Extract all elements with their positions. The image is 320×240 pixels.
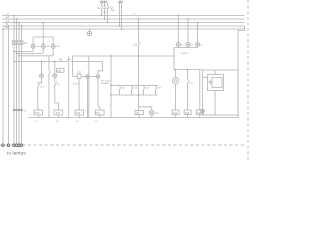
bus N [2, 25, 245, 27]
wire [17, 53, 44, 55]
svg-text:1.4: 1.4 [186, 121, 190, 123]
node feeder PE [2, 28, 4, 30]
svg-text:-S0: -S0 [58, 57, 63, 61]
breaker Q1 link [102, 7, 109, 9]
node N [119, 25, 121, 27]
svg-text:1 2 3: 1 2 3 [101, 2, 105, 4]
terminal lamps 4 [15, 144, 17, 146]
svg-text:-X2: -X2 [23, 110, 27, 112]
wire branch drop 3 [88, 56, 90, 118]
svg-text:-F1: -F1 [23, 41, 27, 45]
wire [100, 3, 102, 7]
node control [13, 61, 15, 63]
contact S4 [143, 85, 145, 95]
lamp H11 [196, 42, 200, 46]
svg-text:K13: K13 [95, 112, 100, 115]
lamp H1 [31, 37, 35, 52]
breaker Q1 pole 3 [107, 7, 109, 11]
lamp H9 [176, 42, 180, 46]
wire rail upper [111, 84, 158, 86]
contact K5 [48, 71, 50, 76]
node feeder L1 [13, 15, 15, 17]
svg-text:3x230V: 3x230V [181, 53, 189, 55]
node PE [121, 28, 123, 30]
svg-text:-P1: -P1 [180, 81, 184, 83]
switch S1 [138, 42, 141, 46]
svg-text:1·2: 1·2 [35, 121, 39, 123]
wire [55, 87, 59, 111]
coil K2 [77, 74, 81, 78]
wire [187, 19, 189, 48]
wire L3 feeder [18, 23, 20, 148]
lamp H10 [186, 42, 190, 46]
breaker Q1 mechanism [98, 7, 100, 8]
terminal X2:2 [16, 109, 18, 111]
fuse block F1 [12, 41, 23, 45]
node H10 [187, 18, 189, 20]
svg-text:-K1: -K1 [57, 84, 61, 86]
wire S1 drop [138, 19, 140, 43]
wire lamp rail [33, 36, 53, 38]
wire [78, 78, 80, 110]
wire [203, 76, 209, 78]
wire [41, 62, 43, 74]
terminal X2:4 [21, 109, 23, 111]
contact S3 [131, 85, 133, 95]
node H6 [41, 61, 43, 63]
wire [54, 78, 56, 82]
svg-text:1.6: 1.6 [198, 121, 202, 123]
wire N feeder [8, 26, 10, 147]
svg-text:K1T: K1T [57, 70, 62, 73]
terminal strip X1 (4,5) [119, 1, 122, 3]
node L3-Q1 [107, 22, 109, 24]
node lamp1 [13, 51, 15, 53]
coil K14 [172, 110, 179, 115]
svg-text:L3: L3 [200, 45, 203, 47]
power supply enclosure U1 [203, 70, 239, 115]
wire top right [174, 48, 203, 70]
wire [214, 91, 216, 116]
coil K15 [184, 110, 191, 115]
lamp H5 [96, 75, 100, 79]
node S1 top [138, 18, 140, 20]
coil K16 [196, 110, 203, 115]
wire [37, 88, 40, 110]
wire branch drop 2 [68, 56, 70, 118]
svg-text:5·6: 5·6 [76, 121, 80, 123]
svg-text:-G1: -G1 [229, 77, 233, 79]
svg-text:7·8: 7·8 [95, 121, 99, 123]
lamp H6 [40, 74, 44, 78]
svg-text:K10: K10 [35, 112, 40, 115]
terminal X2:1 [13, 109, 15, 111]
svg-text:25A ~: 25A ~ [110, 9, 116, 12]
wire [37, 115, 39, 118]
wire [73, 75, 78, 77]
node rail3 [110, 94, 112, 96]
wire [177, 16, 179, 48]
lamp H7 [53, 74, 57, 78]
svg-text:A1: A1 [55, 107, 58, 110]
node meter [175, 69, 177, 71]
wire N2 feeder [21, 26, 23, 147]
svg-text:-K2: -K2 [77, 72, 81, 74]
svg-text:L1: L1 [6, 12, 9, 16]
wire [78, 115, 80, 118]
svg-text:K15: K15 [185, 112, 190, 115]
wire [107, 10, 109, 22]
contact K4 [187, 70, 189, 110]
wire [98, 62, 102, 75]
wire [87, 78, 89, 84]
terminal lamps 1 [2, 144, 4, 146]
earth symbol [87, 29, 92, 36]
node rail2 [110, 84, 112, 86]
terminal X2:3 [18, 109, 20, 111]
svg-text:-K4: -K4 [190, 83, 194, 85]
wire [110, 56, 112, 118]
wire L2 feeder [16, 19, 18, 147]
wire [214, 70, 216, 75]
lamp H3 [51, 37, 55, 56]
wire control feed [14, 61, 66, 63]
svg-text:-H3: -H3 [56, 46, 60, 48]
node L2-Q1 [104, 18, 106, 20]
coil K12 [75, 110, 84, 115]
wire [48, 75, 50, 118]
svg-text:K11: K11 [56, 112, 61, 115]
hour meter P2 [172, 70, 179, 110]
wire [38, 78, 42, 85]
dashed boundary right [247, 0, 249, 160]
contact S2 [119, 85, 121, 95]
neutral rail bottom [28, 117, 238, 119]
node rail5 [110, 55, 112, 57]
wire rail lower [111, 94, 158, 96]
svg-text:K16: K16 [197, 112, 202, 115]
svg-text:230VAC: 230VAC [101, 82, 109, 85]
wire [199, 70, 201, 110]
svg-text:K14: K14 [173, 112, 178, 115]
wire [104, 3, 106, 7]
wire [81, 76, 86, 78]
bus L3 [2, 22, 245, 24]
node K4 [187, 69, 189, 71]
svg-text:2 4 6: 2 4 6 [102, 11, 107, 13]
svg-text:24VDC: 24VDC [73, 84, 80, 86]
svg-text:1.2: 1.2 [174, 121, 178, 123]
wire [174, 47, 198, 49]
wire [73, 56, 175, 62]
wire [57, 115, 59, 118]
wire [98, 78, 100, 110]
svg-text:-H2: -H2 [46, 46, 50, 48]
svg-text:L1: L1 [181, 45, 184, 47]
node lamp3 [18, 55, 20, 57]
node feeder N2 [21, 25, 23, 27]
wire [87, 85, 89, 118]
wire [107, 3, 109, 7]
node feeder L2 [16, 18, 18, 20]
node rail4 [138, 94, 140, 96]
node H9 [177, 15, 179, 17]
junction dots [2, 15, 198, 96]
wire [199, 115, 201, 118]
earth terminal [201, 109, 205, 113]
wire [19, 55, 53, 57]
breaker Q1 pole 2 [104, 7, 106, 11]
wire [175, 115, 177, 118]
coil K10 [34, 110, 43, 115]
svg-text:-H8: -H8 [155, 113, 159, 115]
svg-text:K12: K12 [76, 112, 81, 115]
svg-text:-S4: -S4 [146, 88, 150, 90]
svg-text:PE: PE [5, 25, 9, 29]
wire lamp feed [42, 23, 44, 38]
terminal lamps 6 [20, 144, 22, 146]
lamp H8 [139, 107, 155, 118]
node lamp feed [42, 22, 44, 24]
svg-text:L2: L2 [191, 45, 194, 47]
wire [121, 3, 123, 29]
contact S5 [155, 85, 157, 95]
node feeder N [8, 25, 10, 27]
node H7 [54, 61, 56, 63]
switch S0 [66, 59, 71, 62]
dashed boundary bottom [0, 144, 246, 146]
wire [104, 10, 106, 19]
svg-text:-S1: -S1 [133, 42, 138, 46]
svg-text:-H1: -H1 [36, 46, 40, 48]
svg-text:to lamps: to lamps [7, 150, 26, 155]
wire [138, 46, 140, 111]
breaker Q1 pole 1 [101, 7, 103, 11]
terminal lamps 2 [7, 144, 9, 146]
svg-text:-S2: -S2 [122, 88, 126, 90]
wire [54, 62, 56, 74]
wire [100, 10, 102, 15]
wire L1 feeder [13, 16, 15, 148]
bus PE [2, 28, 245, 30]
terminal lamps 3 [13, 144, 15, 146]
wire [72, 62, 74, 77]
coil K13 [96, 110, 105, 115]
terminal lamps 5 [18, 144, 20, 146]
svg-text:3·4: 3·4 [56, 121, 60, 123]
contact K3 [37, 84, 39, 89]
power supply G1 [208, 75, 224, 91]
contact K1 [54, 82, 56, 87]
svg-text:-S5: -S5 [158, 88, 162, 90]
lamp H4 [86, 75, 90, 79]
svg-text:-Q1: -Q1 [110, 5, 115, 9]
wire [187, 115, 189, 118]
svg-text:-S3: -S3 [134, 88, 138, 90]
lamp H2 [41, 37, 45, 54]
wire [99, 115, 101, 118]
svg-text:4 5: 4 5 [119, 2, 122, 4]
wire [238, 26, 245, 118]
node H11 [197, 22, 199, 24]
svg-text:-K3: -K3 [40, 87, 44, 89]
wire [89, 76, 96, 78]
svg-text:A1: A1 [76, 107, 79, 110]
bus L1 [2, 15, 245, 17]
terminal strip X1 (1,2,3) [100, 1, 106, 3]
bus L2 [2, 18, 245, 20]
wire branch drop 1 [48, 56, 50, 71]
wire [197, 23, 199, 48]
svg-text:1 3 5: 1 3 5 [102, 5, 107, 7]
rectifier symbol [212, 78, 222, 88]
plus symbol [208, 80, 213, 85]
svg-text:-H1 lamp: -H1 lamp [101, 81, 111, 83]
node rail [138, 55, 140, 57]
timer relay label K1T [57, 68, 65, 72]
coil K11 [54, 110, 63, 115]
wire PE feeder [2, 29, 4, 147]
wire [71, 61, 103, 63]
wire [119, 3, 121, 26]
wire [14, 51, 33, 53]
coil K7 [135, 111, 144, 119]
node lamp2 [16, 53, 18, 55]
node feeder L3 [18, 22, 20, 24]
node L1-Q1 [101, 15, 103, 17]
